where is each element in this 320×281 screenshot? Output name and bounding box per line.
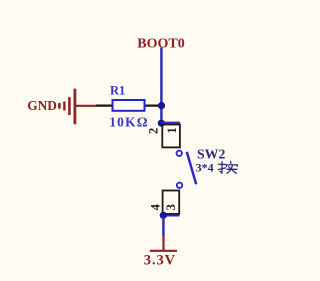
wire R1 to node bbox=[145, 104, 162, 106]
wire along switch bottom pins bbox=[163, 214, 179, 216]
resistor R1 bbox=[113, 100, 145, 111]
switch SW2 body bottom bbox=[163, 191, 180, 214]
svg-text:1: 1 bbox=[165, 127, 179, 133]
svg-text:GND: GND bbox=[27, 98, 57, 113]
wire GND to R1 bbox=[96, 104, 113, 106]
switch contact top bbox=[177, 151, 182, 156]
svg-text:3.3V: 3.3V bbox=[144, 252, 176, 268]
wire BOOT0 vertical bbox=[160, 48, 162, 124]
svg-text:10KΩ: 10KΩ bbox=[109, 114, 149, 129]
svg-text:3: 3 bbox=[164, 204, 178, 210]
switch lever bbox=[187, 152, 196, 185]
power port 3.3V bbox=[150, 236, 177, 251]
node junction at switch pin 4 bbox=[160, 212, 167, 219]
svg-text:R1: R1 bbox=[110, 84, 125, 98]
node junction at R1/BOOT0 bbox=[158, 102, 165, 109]
svg-text:4: 4 bbox=[148, 203, 162, 210]
svg-text:3*4: 3*4 bbox=[196, 161, 214, 175]
ground bbox=[59, 89, 96, 125]
svg-text:2: 2 bbox=[147, 128, 161, 134]
switch contact bottom bbox=[177, 183, 182, 188]
wire to 3.3V bbox=[162, 215, 164, 236]
wire along switch top pins bbox=[161, 122, 180, 124]
hand-drawn CJK 按 glyph bbox=[218, 161, 237, 173]
svg-text:SW2: SW2 bbox=[197, 146, 225, 161]
node junction at switch pin 2 bbox=[158, 120, 165, 127]
switch SW2 body top bbox=[162, 125, 180, 148]
